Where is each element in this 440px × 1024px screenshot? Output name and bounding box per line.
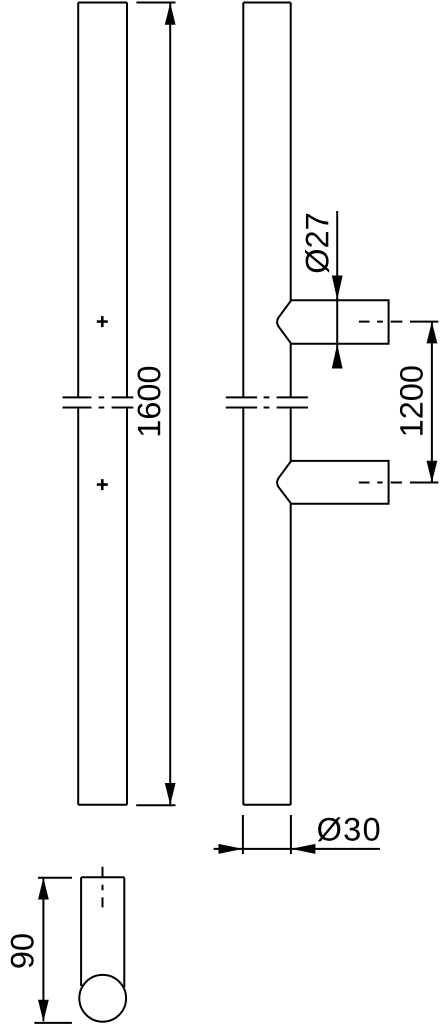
bottom support bullet nose — [277, 461, 291, 504]
dimension text 90 (rotated) — [11, 934, 34, 967]
side view center line (dash-dot) — [102, 867, 104, 908]
left bar break line lower (dash-dot) — [63, 407, 134, 409]
top support bullet nose — [277, 300, 291, 343]
arrowhead 90 bottom (down) — [38, 1000, 49, 1022]
left bar bottom edge — [78, 804, 127, 806]
dimension text 1200 (rotated) — [400, 366, 423, 435]
left bar (front view) top edge — [78, 2, 127, 4]
dimension diameter 30 line — [214, 848, 380, 850]
right bar right edge segment below bottom support — [290, 504, 292, 805]
right bar break line lower (dash-dot) — [226, 407, 308, 409]
dimension 1600 bottom extension line — [136, 804, 175, 806]
top support center line (dash-dot) — [359, 321, 439, 323]
left bar left edge upper segment — [77, 3, 79, 398]
side view circle (bar cross-section) — [79, 975, 126, 1022]
arrowhead dia27 lower (up) — [332, 344, 343, 369]
right bar bottom edge — [243, 804, 290, 806]
arrowhead dia30 left (pointing right) — [218, 844, 243, 854]
dimension 1600 line — [169, 4, 171, 805]
dimension 1600 top extension line — [136, 2, 175, 4]
side view rectangle top edge — [81, 876, 124, 878]
left bar right edge upper segment — [126, 3, 128, 398]
arrowhead dia27 upper (down) — [332, 276, 343, 301]
arrowhead 1200 top (up) — [427, 322, 438, 344]
side view rectangle left edge — [80, 877, 82, 986]
left bar right edge lower segment — [126, 408, 128, 805]
right bar right edge segment above top support — [290, 3, 292, 301]
dimension diameter 30 left extension line — [242, 815, 244, 854]
arrowhead 1600 bottom (down) — [165, 783, 176, 805]
plus mark upper fixing point — [97, 316, 108, 327]
left bar break line upper (dash-dot) — [63, 396, 134, 398]
right bar right edge segment between supports (below break) — [290, 408, 292, 461]
dimension diameter 30 right extension line — [290, 815, 292, 854]
dimension 90 top extension line — [38, 877, 72, 879]
plus mark lower fixing point — [97, 479, 108, 490]
dimension 90 line — [42, 879, 44, 1022]
arrowhead dia30 right (pointing left) — [291, 844, 316, 854]
dimension text 1600 (rotated) — [138, 367, 161, 436]
arrowhead 90 top (up) — [38, 878, 49, 900]
left bar left edge lower segment — [77, 408, 79, 805]
dimension text dia27 (rotated) — [305, 214, 329, 273]
arrowhead 1200 bottom (down) — [427, 461, 438, 483]
right bar top edge — [243, 2, 290, 4]
dimension text dia30 — [318, 817, 380, 841]
dimension 90 bottom extension line — [34, 1022, 72, 1024]
side view rectangle right edge — [123, 877, 125, 987]
arrowhead 1600 top (up) — [165, 3, 176, 25]
right bar right edge segment between supports (above break) — [290, 344, 292, 398]
right bar left edge lower segment — [242, 408, 244, 805]
dimension diameter 27 line — [336, 211, 338, 368]
bottom support center line (dash-dot) — [359, 482, 439, 484]
bottom support outline — [291, 461, 388, 504]
right bar left edge upper segment — [242, 3, 244, 398]
top support outline — [291, 300, 388, 343]
dimension 1200 line — [431, 322, 433, 482]
right bar break line upper (dash-dot) — [226, 396, 308, 398]
